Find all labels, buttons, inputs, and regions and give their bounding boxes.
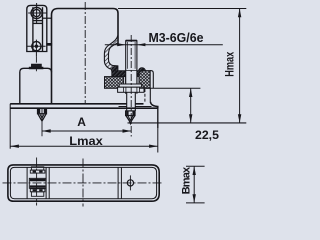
Lmax arrow right: [149, 145, 158, 148]
M3 arrow left: [117, 43, 126, 46]
svg-text:М3-6G/6е: М3-6G/6е: [149, 30, 204, 45]
bracket to body tab: [47, 43, 52, 45]
contact stem below nut right: [134, 92, 136, 111]
Lmax arrow left: [10, 145, 19, 148]
svg-text:Hmax: Hmax: [223, 52, 237, 77]
22.5 dimension line: [190, 88, 192, 123]
bottom view bracket right edge double: [46, 167, 49, 198]
bottom view tab bottom a: [30, 189, 45, 192]
nut facet left: [123, 87, 125, 92]
Hmax arrow bottom: [238, 114, 241, 123]
insulator hatched block left: [105, 77, 124, 89]
screw thread inner right: [134, 42, 136, 69]
bottom view tab top a: [31, 167, 43, 170]
bottom view center pad dark bands: [30, 179, 46, 188]
screw top face: [126, 40, 137, 42]
bracket foot upper: [32, 64, 42, 67]
bracket slot right line: [42, 7, 44, 51]
svg-text:Lmax: Lmax: [69, 134, 103, 148]
base left edge and Lmax extension: [9, 104, 11, 149]
bracket slot cross line lower: [33, 22, 43, 24]
bottom view partition double: [118, 167, 121, 198]
bracket upper tab line: [43, 17, 52, 19]
nut inner lines: [126, 87, 137, 92]
bottom view body centerline vertical: [82, 159, 84, 207]
cap top edge: [150, 71, 153, 89]
bracket top hole crosshair vertical: [36, 3, 38, 23]
screw centerline: [130, 35, 132, 137]
base mid line right: [119, 106, 152, 108]
insulator hatched block right: [139, 71, 150, 89]
svg-text:22,5: 22,5: [195, 128, 219, 142]
screw shaft lower left line: [125, 71, 127, 87]
body outline: [52, 9, 119, 104]
left pin centerline extension: [41, 109, 43, 136]
A dimension line: [42, 130, 131, 132]
A arrow right: [123, 129, 132, 132]
left shoulder profile: [20, 68, 52, 103]
washer under insulator: [119, 84, 141, 87]
Bmax extension top: [186, 165, 205, 167]
bottom view bracket centerline vertical: [36, 158, 38, 206]
base bottom line: [10, 107, 158, 109]
contact stem below nut left: [126, 92, 128, 111]
bracket bottom hole circle: [32, 42, 41, 51]
cap wall hidden dashed: [144, 89, 146, 103]
washer band left merge wedge: [111, 66, 117, 71]
mounting bracket outline: [27, 5, 47, 51]
bottom view screw circle: [127, 180, 133, 186]
Hmax dimension line: [239, 9, 241, 123]
cap wall below flange solid: [149, 88, 151, 101]
bracket foot lower: [29, 67, 43, 69]
bracket bottom hole center dot: [35, 45, 38, 48]
bottom view screw crosshair vertical: [129, 175, 131, 190]
right solder pin collar: [126, 111, 135, 116]
base top line: [10, 103, 143, 105]
insulator clamp arm hatched ring: [104, 36, 117, 70]
bracket centerline lower: [35, 57, 37, 72]
Bmax arrow bottom: [193, 194, 196, 203]
bracket slot left line: [32, 7, 34, 51]
screw shaft right line: [136, 40, 138, 94]
bracket slot cross line upper: [33, 20, 43, 22]
washer hatched band: [112, 71, 146, 77]
bracket bottom hole crosshair horizontal: [27, 45, 45, 47]
washer band right lip: [139, 68, 146, 71]
Lmax dimension line: [10, 145, 158, 147]
bracket top hole inner circle: [33, 9, 40, 16]
M3 arrow right: [137, 43, 146, 46]
flange reference line 22.5: [139, 87, 200, 89]
bottom view inner shell: [10, 167, 156, 198]
right pin prongs: [126, 116, 135, 124]
bottom reference line: [128, 122, 247, 124]
left solder pin collar: [38, 108, 47, 114]
bottom view horizontal centerline: [3, 182, 163, 184]
screw shaft lower white: [126, 71, 137, 92]
bottom view tab bottom a cells: [33, 189, 43, 191]
left pin notch: [40, 114, 45, 119]
right pin notch: [128, 116, 133, 121]
bottom view tab top b: [30, 170, 45, 173]
bracket top hole outer circle: [31, 7, 42, 18]
bracket bottom hole crosshair vertical: [35, 40, 37, 57]
screw thread inner left: [127, 42, 129, 69]
22.5 arrow top: [189, 88, 192, 97]
Bmax dimension line: [193, 166, 195, 203]
nut facet right: [139, 87, 141, 92]
svg-text:A: A: [77, 115, 86, 129]
bottom view bracket left edge: [26, 167, 28, 198]
A arrow left: [42, 129, 51, 132]
right pin collar dark cells: [126, 111, 135, 115]
screw shaft left line: [125, 40, 127, 94]
bracket top hole crosshair horizontal: [28, 12, 46, 14]
M3 leader line: [105, 44, 223, 46]
base right fillet: [150, 102, 158, 109]
nut body: [118, 87, 144, 92]
bottom view outer shell: [8, 165, 159, 201]
bottom view tab top b cells: [33, 171, 43, 173]
Bmax arrow top: [193, 166, 196, 175]
screw shaft lower right line: [136, 71, 138, 87]
body centerline: [84, 2, 86, 104]
Bmax extension bottom: [186, 202, 205, 204]
Hmax arrow top: [238, 9, 241, 18]
bottom view tab bottom b: [31, 192, 43, 197]
22.5 arrow bottom: [189, 114, 192, 123]
base right edge Lmax extension: [157, 107, 159, 129]
left pin collar dark cells: [38, 109, 46, 114]
bottom view center pad: [29, 178, 46, 188]
svg-text:Вmax: Вmax: [181, 166, 193, 194]
left pin prongs: [38, 114, 46, 121]
Hmax top extension line: [118, 8, 246, 10]
